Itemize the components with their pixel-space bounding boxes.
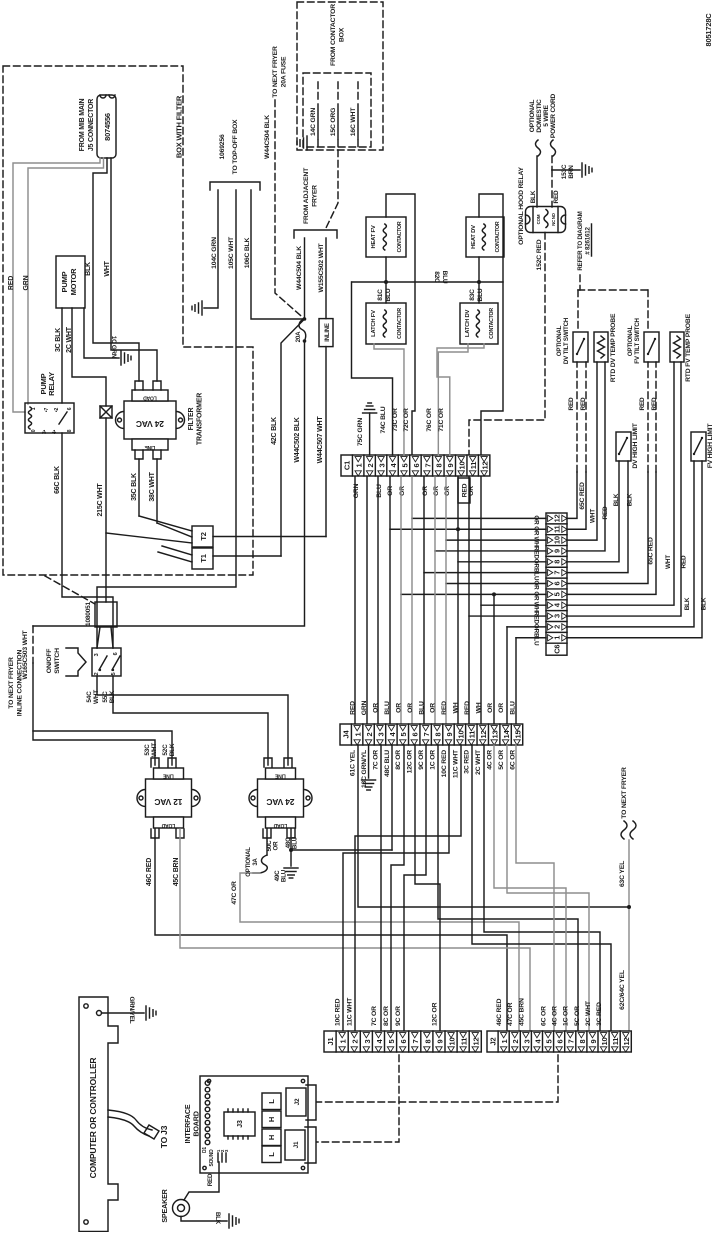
svg-text:RTD DV TEMP PROBE: RTD DV TEMP PROBE [610,313,617,382]
wire 105C WHT to switch [97,190,236,648]
svg-text:OR: OR [533,515,540,525]
label TO NEXT FRYER 20A FUSE [272,46,287,98]
label OPTIONAL 3A [246,847,259,877]
svg-text:RED: RED [568,397,575,410]
svg-text:10: 10 [553,536,562,544]
wire 74C BLU to bus [352,282,393,455]
svg-text:LINE: LINE [162,773,173,779]
svg-text:FV HIGH LIMIT: FV HIGH LIMIT [707,423,714,469]
svg-text:BLU: BLU [385,288,392,301]
wire 49C BLU [290,850,292,866]
label 49C BLU [274,869,288,882]
svg-text:104C GRN: 104C GRN [211,237,218,269]
dashed 152C RED to C1-11 [469,233,545,457]
wire 75C GRN [369,413,371,455]
svg-text:71C OR: 71C OR [438,408,445,432]
svg-text:RED: RED [639,397,646,410]
fuse 20A [303,317,307,321]
svg-text:5: 5 [544,1039,553,1043]
ground 49C BLU [284,868,298,878]
terminal T2 [192,526,213,547]
dashed wire to next fryer 20A [275,100,305,319]
dashed to adjacent fryer bracket [326,150,338,228]
svg-text:HEAT FV: HEAT FV [371,225,377,248]
svg-text:J2: J2 [294,1098,301,1105]
label OPTIONAL DOMESTIC 5 WIRE POWER CORD [529,93,557,138]
junction 48C BLU [289,848,293,852]
svg-text:W165C503 WHT: W165C503 WHT [22,629,29,679]
wire C6-8 high limit [567,461,619,562]
svg-text:BLU: BLU [418,701,425,715]
svg-text:83C: 83C [469,289,476,301]
label FROM MIB MAIN J5 CONNECTOR [79,99,95,152]
wire 215C WHT [105,418,107,602]
wire 55C BLK switch to 24VAC [113,676,268,765]
svg-text:8C OR: 8C OR [383,1006,390,1026]
wire C6-7 high limit [567,461,628,573]
svg-text:42C BLK: 42C BLK [271,417,278,445]
label OPTIONAL FV TILT SWITCH [627,317,641,363]
wire C1 to J4 (OR) [411,477,413,724]
svg-text:W44C504 BLK: W44C504 BLK [264,115,271,159]
label 55C BLK [102,690,116,703]
svg-text:215C WHT: 215C WHT [97,483,104,517]
wire BLK speaker to ground [181,1217,227,1222]
label 50C OR [266,840,280,851]
svg-text:55C: 55C [102,691,109,703]
svg-text:53C: 53C [144,744,151,756]
wire C6-4 probe [567,362,674,605]
svg-text:11: 11 [611,1038,620,1046]
svg-text:6: 6 [556,1039,565,1043]
svg-text:HEAT DV: HEAT DV [471,225,477,249]
transformer 12 VAC [137,768,200,828]
wire WHT to filter transformer [111,158,157,381]
wire 8C OR to J1-5 [391,745,404,1031]
svg-text:45C BRN: 45C BRN [518,998,525,1026]
wire 61C YEL [358,745,629,907]
svg-text:8: 8 [553,560,562,564]
wire to C6-12 [412,517,546,519]
svg-text:PUMP: PUMP [60,271,69,292]
svg-text:WHT: WHT [151,743,158,757]
svg-text:3•: 3• [42,429,48,434]
svg-text:FV TILT SWITCH: FV TILT SWITCH [634,317,641,363]
wire C1 to J4 [354,477,356,724]
svg-text:16C WHT: 16C WHT [350,107,357,136]
wire GRN/YEL [102,1012,145,1014]
svg-text:CONTACTOR: CONTACTOR [397,221,403,252]
svg-text:BOX WITH FILTER: BOX WITH FILTER [175,95,184,158]
connector J5 8074556 [97,95,116,158]
wire 10C RED to J1-1 [343,745,449,1031]
svg-text:OPTIONAL: OPTIONAL [627,325,634,356]
wire W155C502 WHT [325,238,327,319]
svg-text:RTD FV TEMP PROBE: RTD FV TEMP PROBE [685,313,692,382]
wire C1 to J4 (OR) [400,477,402,724]
svg-text:TRANSFORMER: TRANSFORMER [196,393,203,445]
wire C6-3 probe [567,362,681,616]
connector J1 [324,1031,481,1052]
svg-text:BLK: BLK [214,1212,221,1225]
label ON/OFF SWITCH [46,648,61,674]
label 153C BRN [561,164,575,179]
brace to next fryer [621,821,636,839]
svg-text:D1: D1 [202,1147,208,1153]
svg-text:OR: OR [399,486,406,496]
wire 82C BLU bus [352,281,503,283]
svg-text:TO NEXT FRYER: TO NEXT FRYER [8,657,15,709]
chip J3 [224,1112,255,1136]
wire BLK to filter transformer [93,158,139,381]
svg-text:6C OR: 6C OR [540,1006,547,1026]
wire 1C OR to J2-7 [438,745,578,1031]
svg-text:76C OR: 76C OR [426,408,433,432]
svg-text:ON/OFF: ON/OFF [46,649,53,674]
wire RED to pump relay coil [13,158,100,412]
wire C1 to J4 [389,477,391,724]
svg-text:BRN: BRN [568,165,575,179]
svg-text:L: L [267,1152,276,1157]
svg-text:1: 1 [354,732,363,736]
svg-text:45C BRN: 45C BRN [173,858,180,887]
svg-text:BLU: BLU [533,633,540,646]
svg-text:FROM MIB MAIN: FROM MIB MAIN [79,99,86,152]
svg-text:9C OR: 9C OR [395,1006,402,1026]
svg-text:14C GRN: 14C GRN [310,108,317,136]
svg-text:81C: 81C [377,289,384,301]
svg-text:BLU: BLU [477,288,484,301]
svg-text:BLK: BLK [701,597,708,610]
wire W44C507 WHT [325,347,327,537]
svg-text:10C RED: 10C RED [335,998,342,1026]
svg-text:C6: C6 [553,645,562,654]
svg-text:5 WIRE: 5 WIRE [543,104,550,126]
svg-text:15C ORG: 15C ORG [330,108,337,136]
svg-text:TO J3: TO J3 [159,1125,169,1148]
svg-text:WHT: WHT [104,260,111,276]
svg-text:POWER CORD: POWER CORD [550,93,557,138]
svg-text:J1: J1 [293,1141,300,1148]
svg-text:10: 10 [600,1038,609,1046]
svg-text:CONTACTOR: CONTACTOR [397,308,403,339]
dashed RED to relay [551,170,553,207]
wire 76C OR to LATCH DV [438,344,468,455]
svg-text:DV HIGH LIMIT: DV HIGH LIMIT [632,422,639,468]
svg-text:63C YEL: 63C YEL [619,861,626,887]
stub 14C GRN [317,82,319,103]
svg-text:TO NEXT FRYER: TO NEXT FRYER [621,767,628,819]
svg-text:BLK: BLK [613,493,620,506]
svg-text:2: 2 [511,1039,520,1043]
wire 1C GRN to ground [84,308,119,358]
svg-text:5: 5 [387,1039,396,1043]
svg-text:J3: J3 [237,1120,244,1128]
wire 71C OR to LATCH DV [437,344,484,455]
terminal T1 [192,548,213,569]
svg-text:10: 10 [447,1038,456,1046]
svg-text:3: 3 [522,1039,531,1043]
wire 52C BLK [33,731,172,765]
svg-text:5: 5 [400,463,409,467]
svg-text:1C GRN: 1C GRN [110,336,117,359]
svg-text:BOX: BOX [338,27,345,42]
svg-text:REFER TO DIAGRAM: REFER TO DIAGRAM [577,211,584,270]
svg-text:65C RED: 65C RED [648,537,655,565]
svg-text:OR: OR [433,486,440,496]
wire 9C OR to J1-6 [404,745,426,1031]
svg-text:BLK: BLK [627,493,634,506]
svg-text:11: 11 [460,1038,469,1046]
svg-text:OR: OR [487,703,494,713]
svg-text:GRN: GRN [353,483,360,498]
dashed enclosure BOX WITH FILTER [3,66,253,575]
wire 48C BLU to J4-4 [291,849,392,851]
wire HEAT DV coil to bus [478,257,480,303]
ground 1C GRN [121,351,131,365]
dashed leader to 1080051 [45,576,95,604]
contactor LATCH FV [366,303,406,344]
wire 38C WHT [156,459,158,523]
connector J2 on board [286,1088,306,1116]
connector J4 [340,724,523,745]
svg-text:LOAD: LOAD [143,395,157,401]
svg-text:3C RED: 3C RED [596,1002,603,1026]
wire GRN to pump relay coil [28,158,104,404]
svg-text:4C OR: 4C OR [487,750,494,770]
svg-text:105C WHT: 105C WHT [228,236,235,269]
wire C1 to J4 (OR) [445,477,447,724]
svg-text:BLU: BLU [292,836,299,849]
wire to C6-1 [516,637,546,639]
contactor LATCH DV [460,303,498,344]
svg-text:RED: RED [207,1173,214,1186]
dashed box FROM CONTACTOR BOX [297,2,383,150]
wire C6-12 to tilt switch [567,472,577,518]
svg-text:TO TOP-OFF BOX: TO TOP-OFF BOX [232,119,239,174]
svg-text:35C BLK: 35C BLK [131,473,138,501]
stub 16C WHT [357,82,359,103]
dashed J2 to interface board [317,1055,558,1102]
svg-text:8C OR: 8C OR [395,750,402,770]
svg-text:BLU: BLU [376,484,383,498]
svg-text:LATCH DV: LATCH DV [465,310,471,338]
svg-text:14: 14 [502,730,511,739]
junction 61C YEL 63C YEL [627,905,631,909]
wire to C6-7 [424,572,546,574]
svg-text:C1: C1 [343,461,352,470]
svg-text:OPTIONAL: OPTIONAL [246,847,252,877]
svg-text:5: 5 [399,732,408,736]
svg-text:SOUND: SOUND [209,1149,215,1167]
ground 13C GRN/YL [362,780,376,790]
wire 2C WHT motor to capacitor [72,308,106,406]
wire 48C BLU stub [290,829,292,850]
svg-text:2: 2 [365,732,374,736]
svg-text:46C RED: 46C RED [496,998,503,1026]
svg-text:OR: OR [373,703,380,713]
svg-text:61C YEL: 61C YEL [350,750,357,776]
wire HEAT FV coil to bus [385,257,387,303]
svg-text:1: 1 [31,407,37,410]
svg-text:RED: RED [553,190,560,203]
wire 42C BLK [281,319,305,556]
svg-text:L: L [267,1099,276,1104]
svg-text:6: 6 [67,407,73,410]
svg-text:RED: RED [464,701,471,715]
wire 215C WHT into T2 [106,533,192,543]
connector J2 [487,1031,631,1052]
svg-text:72C OR: 72C OR [403,408,410,432]
svg-text:5C OR: 5C OR [574,1006,581,1026]
svg-text:RED: RED [8,276,15,290]
wire 6C OR to J2-5 [516,745,554,1031]
svg-text:RED: RED [533,611,540,624]
svg-text:62C/64C YEL: 62C/64C YEL [619,970,626,1010]
wire to C6-4 [481,604,546,606]
ground speaker BLK [229,1214,239,1228]
wire 53C WHT [33,663,155,765]
svg-text:OR: OR [430,703,437,713]
svg-text:WH: WH [475,702,482,713]
svg-text:SPEAKER: SPEAKER [160,1188,169,1222]
svg-text:TO NEXT FRYER: TO NEXT FRYER [272,46,279,98]
svg-text:8: 8 [423,1039,432,1043]
svg-text:2: 2 [553,625,562,629]
junction 81C BLU [384,280,388,284]
wire C1 to J4 [377,477,379,724]
wire to C6-8 [458,561,546,563]
svg-text:0: 0 [31,429,37,432]
filter transformer [116,390,185,450]
svg-text:2C WHT: 2C WHT [475,749,482,775]
svg-text:RED: RED [651,397,658,410]
wire 2C WHT to J2-9 [484,745,600,1031]
svg-text:RED: RED [350,701,357,715]
svg-text:46C RED: 46C RED [146,858,153,886]
svg-text:73C OR: 73C OR [392,408,399,432]
svg-text:T1: T1 [199,554,208,562]
pump motor [56,256,85,308]
svg-text:NC NO: NC NO [551,212,556,225]
wire C1 to J4 [457,477,459,724]
computer or controller [79,997,118,1232]
svg-text:BLU: BLU [441,271,448,284]
svg-text:WH: WH [453,702,460,713]
dashed J1 to interface board [317,1055,399,1142]
junction C6-5 wire [492,592,496,596]
svg-text:OR: OR [533,580,540,590]
svg-text:BLK: BLK [530,190,537,203]
svg-text:RED: RED [441,701,448,715]
wire to C6-11 [390,528,546,530]
label INTERFACE BOARD [183,1104,200,1143]
svg-text:H: H [267,1135,276,1140]
svg-text:J4: J4 [342,730,351,739]
ground 14C GRN [297,136,307,150]
svg-text:7: 7 [567,1039,576,1043]
svg-text:153C: 153C [561,164,568,179]
wire 73C OR to LATCH FV [374,344,404,455]
svg-text:8: 8 [578,1039,587,1043]
svg-text:W44C504 BLK: W44C504 BLK [296,246,303,290]
svg-text:6: 6 [412,463,421,467]
wire 1080051 to switch [97,627,100,648]
svg-text:7C OR: 7C OR [372,750,379,770]
wire to J4-14 [506,627,508,724]
svg-text:9: 9 [553,549,562,553]
wire 38C WHT into T2 [157,523,192,537]
svg-text:13C GRN/YL: 13C GRN/YL [361,750,368,788]
junction 83C BLU [477,280,481,284]
svg-text:OR: OR [533,591,540,601]
svg-text:8: 8 [435,463,444,467]
svg-text:9: 9 [435,1039,444,1043]
label FILTER TRANSFORMER [188,393,203,445]
bracket from adjacent fryer [294,230,337,238]
svg-text:12: 12 [472,1038,481,1046]
headers L H H L [262,1093,281,1110]
svg-text:BLK: BLK [169,743,176,756]
svg-text:47C OR: 47C OR [231,881,238,905]
svg-text:OR: OR [273,841,280,851]
svg-text:82C: 82C [433,271,440,283]
svg-text:152C RED: 152C RED [536,239,543,270]
svg-text:WHT: WHT [93,690,100,704]
svg-text:2: 2 [94,672,100,675]
svg-text:BLU: BLU [281,869,288,882]
svg-text:24 VAC: 24 VAC [266,797,294,807]
svg-text:75C GRN: 75C GRN [357,418,364,446]
svg-text:DOMESTIC: DOMESTIC [536,99,543,133]
wire into T1 [158,552,192,562]
ground 75C GRN [363,403,377,413]
svg-text:GRN/YEL: GRN/YEL [128,996,135,1023]
wire 1080051 to switch [111,627,113,648]
interface board [200,1076,308,1173]
wire C6-9 probe [567,362,605,551]
wire to C6-3 [469,615,546,617]
wire T2 to W44C507 WHT [213,536,326,538]
high limit DV [616,432,631,461]
contactor HEAT FV [366,217,406,257]
RTD probe FV [670,332,684,362]
wire HEAT FV coil top to C1-6 [386,194,415,455]
svg-text:5: 5 [111,672,117,675]
svg-text:3: 3 [94,653,100,656]
svg-text:11: 11 [468,731,477,739]
svg-text:LOAD: LOAD [273,822,287,828]
svg-text:1C OR: 1C OR [563,1006,570,1026]
svg-text:RELAY: RELAY [47,372,56,396]
on/off switch [66,648,86,676]
wire to C6-9 [435,550,546,552]
svg-text:11: 11 [553,525,562,533]
wire C1 to J4 [423,477,425,724]
svg-text:BLK: BLK [85,262,92,276]
label RED boxed [458,478,470,503]
svg-text:1069256: 1069256 [219,134,226,159]
wire 11C WHT to J1-2 [355,745,461,1031]
svg-text:T2: T2 [199,532,208,540]
svg-text:8: 8 [67,429,73,432]
svg-text:GRN: GRN [23,275,30,290]
wire C6-1 high limit [567,461,702,638]
wire to C6-6 [446,583,546,585]
wire C6-6 to tilt switch [567,472,648,584]
wire 45C BRN to J2-3 [180,829,530,1031]
dashed tilt feed [578,289,648,291]
